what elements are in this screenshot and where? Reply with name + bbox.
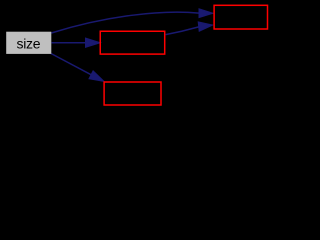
edge size->middle node (52, 38, 101, 47)
svg-text:size: size (17, 35, 41, 51)
edge middle node->top-right node (166, 22, 213, 35)
node size (current node, gray) (6, 32, 51, 54)
node top-right (red truncated box) (214, 5, 267, 29)
node bottom (red truncated box) (104, 82, 161, 105)
edge size->bottom node (51, 54, 104, 82)
node middle (red truncated box) (100, 31, 164, 54)
edge size->top-right node (51, 9, 213, 33)
